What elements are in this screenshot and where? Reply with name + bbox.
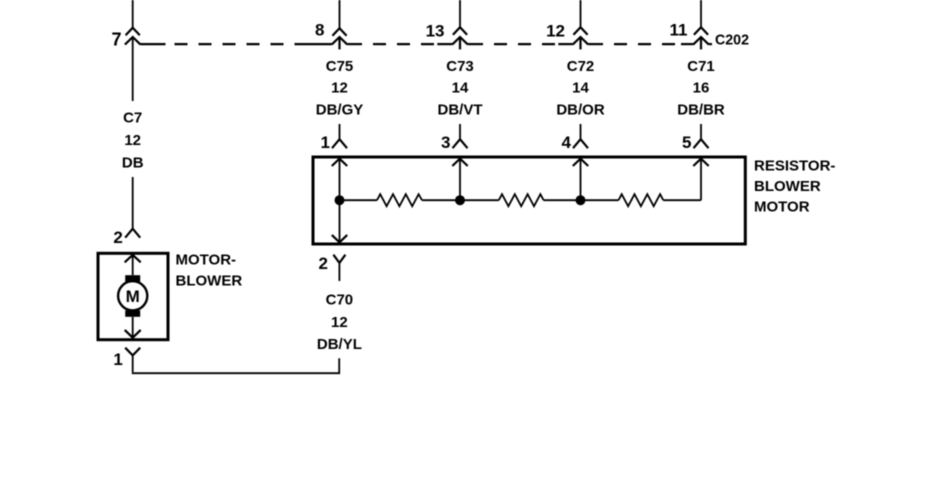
wire junction to R3 [581,199,619,201]
svg-text:BLOWER: BLOWER [176,273,243,290]
wire pin5 riser [700,159,702,201]
wire pin1 junction down to pin2 [339,200,341,242]
svg-text:MOTOR-: MOTOR- [176,252,237,269]
wire top feed pin 12 [580,0,582,27]
svg-text:C7: C7 [123,110,142,127]
connector pin 3 of resistor [453,139,468,148]
wire label C71 / 16 / DB/BR [677,58,725,118]
resistor bus wire segment [340,199,378,201]
junction dot at pin3 [455,195,465,205]
svg-text:RESISTOR-: RESISTOR- [754,157,835,174]
resistor-blower-motor box [313,157,745,244]
wire motor bottom lead [132,317,134,338]
svg-text:M: M [126,287,140,306]
arrow out of motor bottom [125,330,141,338]
arrow into resistor pin3 [452,159,467,166]
arrow into resistor pin5 [693,159,708,166]
wire top feed pin 7 [132,0,134,28]
wire label C75 / 12 / DB/GY [316,58,364,118]
arrow into resistor pin1 [332,159,347,166]
resistor element R3 [619,194,664,206]
wire label C72 / 14 / DB/OR [556,58,605,118]
svg-text:16: 16 [693,80,710,97]
svg-text:DB/OR: DB/OR [556,101,605,118]
connector pin 1 of motor-blower [125,348,140,373]
svg-text:DB/VT: DB/VT [438,101,483,118]
svg-text:12: 12 [331,314,348,331]
junction dot at pin1 [335,195,345,205]
wire junction to R2 [460,199,499,201]
svg-text:8: 8 [315,21,324,40]
connector pin 5 of resistor [694,139,709,148]
connector pin 2 of resistor [333,255,345,281]
wire label C70 / 12 / DB/YL [317,292,362,353]
motor M1 body [118,281,147,310]
svg-text:14: 14 [572,80,589,97]
wire R1 to junction [422,199,460,201]
arrow into motor top [125,255,141,262]
label MOTOR-BLOWER [176,252,243,290]
svg-text:4: 4 [562,133,572,152]
svg-text:13: 13 [426,21,445,40]
motor-blower box [98,253,168,339]
motor M1 brush top [125,275,140,281]
svg-text:14: 14 [452,80,469,97]
svg-text:2: 2 [113,228,122,247]
wire top feed pin 11 [700,0,702,27]
svg-text:C70: C70 [326,292,354,309]
motor M1 brush bottom [125,310,140,316]
svg-text:7: 7 [111,29,121,49]
wire top feed pin 13 [459,0,461,27]
wire C7 upper segment [132,37,134,101]
svg-text:C202: C202 [715,31,749,48]
svg-text:1: 1 [321,133,330,152]
connector C202 pin 11 [693,27,709,49]
resistor element R2 [499,194,544,206]
wire C7 lower segment [132,177,134,229]
arrow into resistor pin4 [573,159,588,166]
wire R2 to junction [544,199,581,201]
svg-text:DB/YL: DB/YL [317,336,362,353]
svg-text:C71: C71 [687,58,715,75]
wire pin4 to bus [580,159,582,201]
resistor element R1 [377,194,422,206]
svg-text:MOTOR: MOTOR [754,199,810,216]
wire C73 stub [459,124,461,139]
wire C75 stub [339,124,341,139]
svg-text:DB/GY: DB/GY [316,101,364,118]
wire pin1 to bus [339,159,341,201]
arrow out of resistor bottom [332,235,347,243]
svg-text:5: 5 [682,133,691,152]
wire label C73 / 14 / DB/VT [438,58,483,118]
svg-text:12: 12 [124,132,141,149]
svg-text:2: 2 [319,254,328,273]
svg-text:DB/BR: DB/BR [677,101,725,118]
connector pin 2 of motor-blower [125,229,140,238]
svg-text:C72: C72 [567,58,595,75]
wire C71 stub [700,124,702,139]
connector pin 1 of resistor [332,139,347,148]
svg-text:11: 11 [670,20,688,39]
connector C202 dashed mating line [141,43,713,45]
wire R3 to pin5 riser [663,199,701,201]
svg-text:BLOWER: BLOWER [754,178,821,195]
connector pin 4 of resistor [573,139,588,148]
svg-text:C73: C73 [446,58,474,75]
svg-text:3: 3 [441,133,450,152]
svg-text:1: 1 [113,350,122,369]
wire top feed pin 8 [339,0,341,28]
wire C72 stub [580,124,582,139]
wire bottom run motor pin1 to C70 [133,358,340,373]
wire pin3 to bus [459,159,461,201]
wire label C7 / 12 / DB [122,110,144,172]
svg-text:C75: C75 [326,58,354,75]
svg-text:DB: DB [122,155,144,172]
svg-text:12: 12 [331,80,348,97]
junction dot at pin4 [576,195,586,205]
wire motor top lead [132,255,134,275]
connector C202 pin 8 [332,28,348,49]
label RESISTOR-BLOWER MOTOR [754,157,835,215]
connector C202 pin 12 [573,27,589,49]
connector C202 pin 7 [125,28,141,45]
svg-text:12: 12 [546,21,565,40]
connector C202 pin 13 [452,27,468,49]
